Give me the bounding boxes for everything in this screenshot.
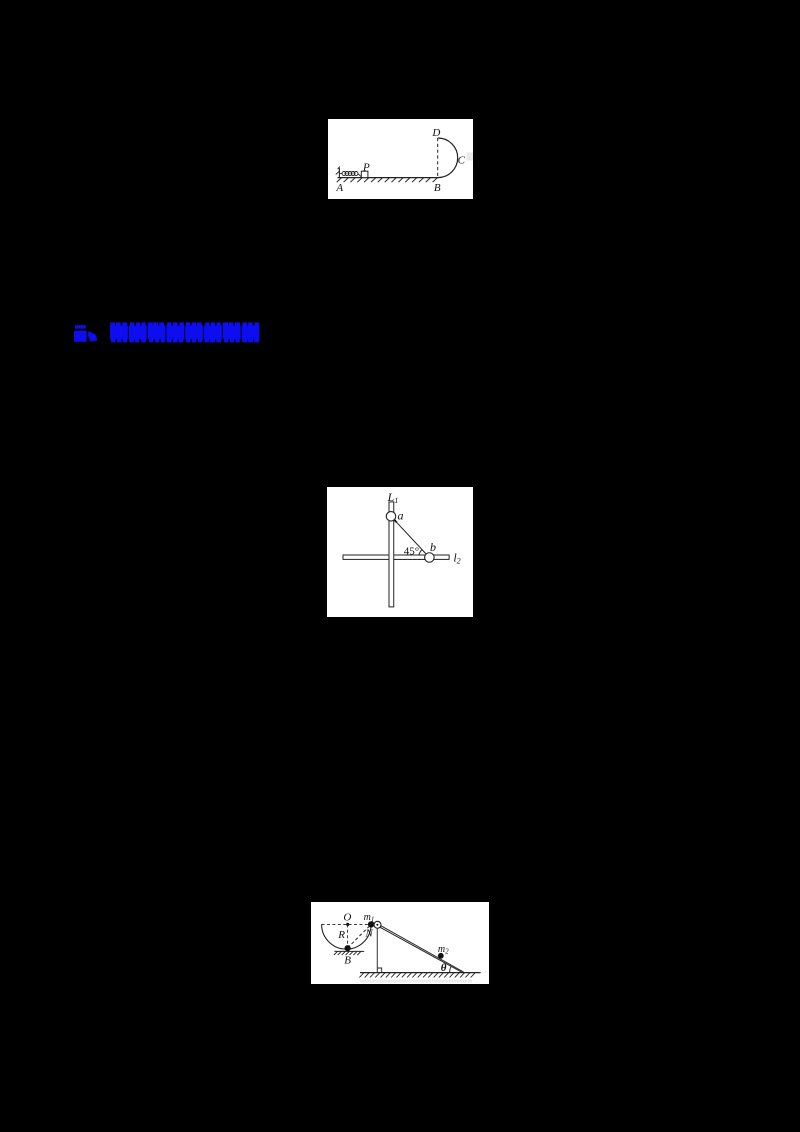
heading character 2 [129,322,147,342]
ground hatching [337,178,438,183]
ground line AB [338,177,439,179]
right angle mark [377,968,381,973]
svg-text:45°: 45° [404,546,419,558]
svg-text:C: C [458,154,466,166]
bead a [386,512,396,522]
bead b [425,553,435,563]
ball m2 [438,953,444,959]
blue section heading [0,0,300,360]
wall hatch tick [336,171,340,175]
figure 3: hemispherical bowl with m1 over pulley to m2 on incline [311,902,489,984]
svg-text:A: A [335,182,343,194]
heading numeral SAN [74,325,87,342]
figure 1: spring-block with vertical semicircular loop BCD [328,119,473,199]
svg-text:B: B [344,954,351,966]
heading character 3 [148,322,166,342]
bowl support hatching [334,951,361,955]
dashed chord BN to m1 [348,925,371,948]
heading enumeration comma [88,331,98,342]
dashed line BD [437,138,439,177]
incline rod upper line [379,925,463,972]
string stub near bead a [394,519,397,522]
hidden edge dashes on rod l2 [394,558,425,560]
vertical rod L1 [389,502,394,607]
figure 2: bead a on vertical rod L1, bead b on horizontal rod l2, string at 45 deg [327,487,473,617]
ground line [360,972,481,974]
support post [376,928,378,973]
heading character 7 [223,322,241,342]
ball m1 [368,921,374,927]
bowl support line [334,950,364,952]
svg-text:l2: l2 [453,551,460,566]
svg-text:m1: m1 [364,912,375,924]
block P [361,171,368,177]
heading character 1 [110,322,128,342]
dashed bowl diameter [322,923,372,925]
heading character 8 [242,322,260,342]
center dot O [346,923,349,926]
artifact band [360,980,472,983]
ground hatching [359,973,475,978]
incline rod lower line [379,927,463,973]
svg-text:P: P [362,161,370,173]
spring coils [340,172,361,177]
artifact smudge [467,153,474,161]
horizontal rod l2 [343,555,449,559]
semicircular track arc DCB [438,138,458,178]
angle arc 45 [419,550,422,556]
heading character 6 [204,322,222,342]
svg-text:O: O [343,911,351,923]
svg-text:R: R [337,929,345,941]
dashed radius OB [347,924,349,945]
svg-text:a: a [398,509,404,523]
wall hatch tick 2 [338,167,340,170]
bead B in bowl [345,945,351,951]
bowl arc [322,924,372,949]
pulley wheel [374,921,381,928]
svg-text:m2: m2 [438,944,449,956]
heading character 4 [166,322,184,342]
svg-text:b: b [430,540,436,554]
svg-text:B: B [434,182,441,194]
wall post at A [338,168,340,178]
svg-text:N: N [365,927,374,939]
svg-text:L1: L1 [387,490,399,505]
heading character 5 [185,322,203,342]
pulley axle dot [376,924,378,926]
svg-text:D: D [431,127,440,139]
string ab [391,516,429,557]
angle arc theta [450,966,452,972]
